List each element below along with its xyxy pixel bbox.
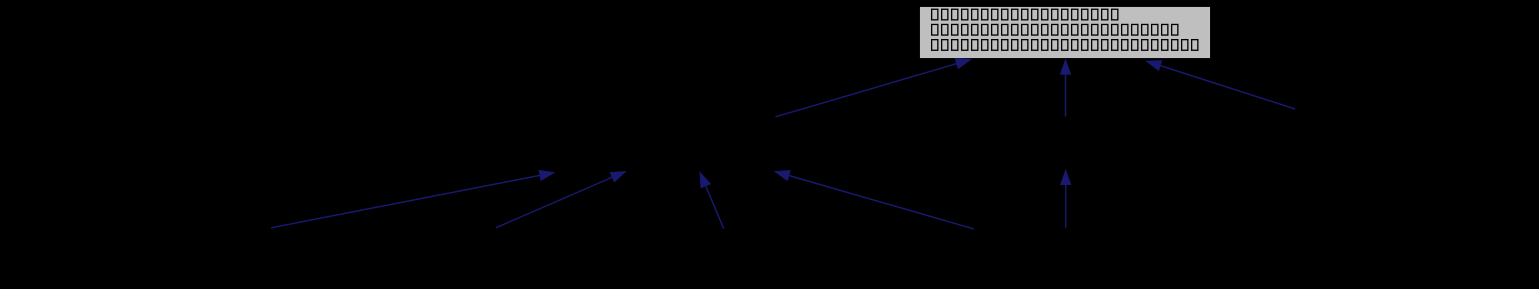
edge C: bottom caller to mid node 2 (steep) <box>700 172 724 229</box>
node label line 2: 25 missing-glyph boxes <box>932 24 1178 35</box>
edge F2: bottom caller to mid node 4 (vertical) <box>1060 170 1071 228</box>
edge D: bottom caller to mid node 3 (leftward) <box>775 171 974 229</box>
node label line 3: 27 missing-glyph boxes <box>932 40 1198 51</box>
edge E: mid node 3 to grey box <box>776 59 972 117</box>
edge B: bottom caller to mid node 2 <box>496 171 626 228</box>
node label line 1: 19 missing-glyph boxes <box>932 9 1118 20</box>
edge F1: mid node 4 to grey box (vertical) <box>1060 59 1071 116</box>
edge A: bottom-left caller to mid node 1 <box>271 170 554 228</box>
edge G: right caller to grey box <box>1146 61 1295 109</box>
node: current-function box (grey fill) <box>919 6 1210 58</box>
